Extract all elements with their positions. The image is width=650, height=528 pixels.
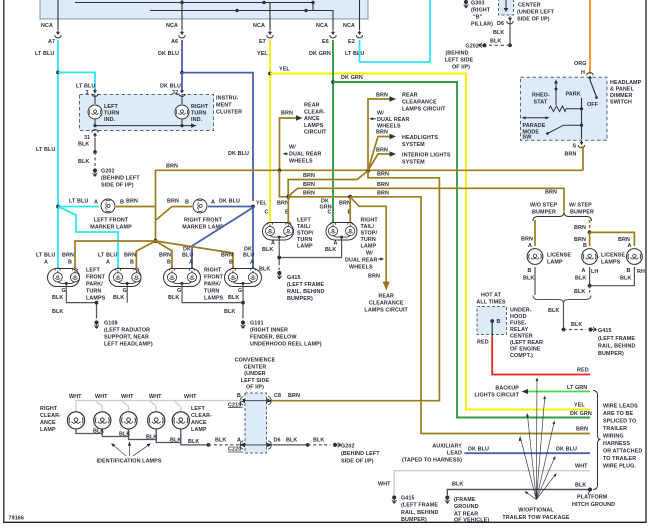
svg-text:A: A <box>334 241 338 247</box>
svg-text:BRN: BRN <box>376 93 388 99</box>
svg-text:W/: W/ <box>377 111 384 117</box>
lamp assembly right front park/turn 4 <box>221 247 262 295</box>
svg-text:A: A <box>211 200 215 206</box>
svg-text:WHEELS: WHEELS <box>289 158 313 164</box>
svg-text:B: B <box>627 268 631 274</box>
wire LT GRN backup lights stub <box>474 385 590 409</box>
wire BRN star to lamp2 B <box>136 241 155 268</box>
svg-text:WIRING: WIRING <box>603 434 624 440</box>
svg-text:(RIGHT INNER: (RIGHT INNER <box>250 328 288 334</box>
svg-text:BUMPER: BUMPER <box>532 210 556 216</box>
lamp identification 1 <box>94 412 111 429</box>
svg-text:YEL: YEL <box>256 201 267 207</box>
svg-text:DK BLU: DK BLU <box>468 447 489 453</box>
svg-text:LT BLU: LT BLU <box>35 51 54 57</box>
svg-text:UNDERHOOD REEL LAMP): UNDERHOOD REEL LAMP) <box>250 342 322 348</box>
node DK BLU marker junction <box>251 205 255 209</box>
svg-text:SW: SW <box>523 135 533 141</box>
lamp left front marker <box>56 199 138 231</box>
wire BRN to rear clearance lamps circuit (left stub) <box>280 103 328 171</box>
svg-text:LAMPS: LAMPS <box>204 296 224 302</box>
svg-text:DK GRN: DK GRN <box>309 51 331 57</box>
svg-text:DK BLU: DK BLU <box>160 84 181 90</box>
svg-text:BACKUP: BACKUP <box>495 386 519 392</box>
wire WHT trailer <box>378 464 590 496</box>
svg-text:DK BLU: DK BLU <box>158 51 179 57</box>
wire BRN junction to convenience center C8 (down right side) <box>272 171 439 401</box>
svg-text:A: A <box>106 260 110 266</box>
connector cluster pin 3 <box>92 89 98 96</box>
svg-text:HOOD: HOOD <box>510 314 527 320</box>
svg-text:SIDE OF I/P): SIDE OF I/P) <box>101 183 134 189</box>
svg-text:REAR: REAR <box>378 294 394 300</box>
svg-text:(LEFT REAR: (LEFT REAR <box>510 340 543 346</box>
svg-text:BRN: BRN <box>159 253 171 259</box>
wire DK BLU auxiliary lead <box>402 444 590 464</box>
svg-text:SYSTEM: SYSTEM <box>402 142 425 148</box>
parade mode lever <box>546 125 581 135</box>
svg-text:YEL: YEL <box>257 51 268 57</box>
svg-text:BRN: BRN <box>126 199 138 205</box>
svg-text:RIGHT: RIGHT <box>361 218 379 224</box>
svg-text:YEL: YEL <box>574 403 585 409</box>
svg-text:BUMPER): BUMPER) <box>401 517 427 523</box>
svg-text:CENTER: CENTER <box>510 334 533 340</box>
svg-text:BLK: BLK <box>262 247 273 253</box>
svg-text:B: B <box>120 200 124 206</box>
lamp license RH <box>620 249 645 282</box>
svg-text:G415: G415 <box>598 328 612 334</box>
svg-text:INTERIOR LIGHTS: INTERIOR LIGHTS <box>402 153 451 159</box>
svg-text:C: C <box>265 210 269 216</box>
svg-text:BLK: BLK <box>170 438 181 444</box>
svg-text:BLK: BLK <box>168 295 179 301</box>
svg-text:RIGHT: RIGHT <box>191 104 209 110</box>
connector E2 <box>343 19 364 57</box>
svg-text:E2: E2 <box>348 39 355 45</box>
svg-text:RED: RED <box>577 368 589 374</box>
ground G415 (tail lamps) <box>277 271 324 302</box>
svg-text:PARK/: PARK/ <box>204 282 221 288</box>
svg-text:REAR: REAR <box>304 103 320 109</box>
svg-text:A: A <box>528 243 532 249</box>
svg-text:BRN: BRN <box>221 253 233 259</box>
svg-text:BLK: BLK <box>78 159 89 165</box>
svg-text:PILLAR): PILLAR) <box>471 22 493 28</box>
svg-text:AUXILIARY: AUXILIARY <box>432 444 462 450</box>
svg-text:BRN: BRN <box>521 237 533 243</box>
svg-text:(TAPED TO HARNESS): (TAPED TO HARNESS) <box>402 458 462 464</box>
svg-text:RIGHT: RIGHT <box>204 268 222 274</box>
license lamp step-bumper split brace <box>530 203 594 222</box>
wire BLK dashed to G202 <box>489 39 510 46</box>
svg-text:WHT: WHT <box>149 394 162 400</box>
svg-text:LAMPS: LAMPS <box>86 296 106 302</box>
svg-text:LT BLU: LT BLU <box>76 84 95 90</box>
svg-text:BLK: BLK <box>452 482 463 488</box>
node left tail splice <box>286 195 290 199</box>
connector A7 <box>35 19 61 57</box>
svg-text:WHT: WHT <box>378 482 391 488</box>
lamp right front marker <box>167 199 253 231</box>
node DK BLU branch <box>180 71 184 75</box>
wire ORG <box>574 0 590 76</box>
svg-text:BLK: BLK <box>113 295 124 301</box>
svg-text:BLK: BLK <box>523 276 534 282</box>
wire BLK from cluster <box>78 138 95 153</box>
svg-text:CENTER: CENTER <box>244 364 267 370</box>
svg-text:PARK/: PARK/ <box>86 282 103 288</box>
svg-text:DK GRN: DK GRN <box>341 75 363 81</box>
junction dots in switch box <box>180 1 183 4</box>
svg-text:LAMPS CIRCUIT: LAMPS CIRCUIT <box>402 107 446 113</box>
ground G202 (behind left side of I/P) <box>445 43 487 71</box>
svg-text:G: G <box>238 288 242 294</box>
svg-text:NCA: NCA <box>343 23 355 29</box>
svg-text:BRN: BRN <box>303 191 315 197</box>
svg-text:79166: 79166 <box>9 516 25 522</box>
svg-text:LAMP: LAMP <box>297 244 313 250</box>
svg-text:W/ STEP: W/ STEP <box>569 203 592 209</box>
ground G202 (bottom) <box>333 443 380 465</box>
svg-text:COMPT.): COMPT.) <box>510 353 533 359</box>
svg-text:LT BLU: LT BLU <box>36 147 55 153</box>
svg-text:LEFT FRONT: LEFT FRONT <box>94 218 129 224</box>
svg-text:UNDER-: UNDER- <box>510 308 532 314</box>
connector C220 (A to D6) <box>228 437 281 452</box>
wire BLK license grounds <box>535 267 634 295</box>
connector cluster pin 32 <box>179 89 185 96</box>
wire LT BLU from A7 (main left run) <box>57 40 59 268</box>
svg-text:E6: E6 <box>322 39 329 45</box>
svg-text:RAIL, BEHIND: RAIL, BEHIND <box>598 344 635 350</box>
svg-text:TAIL/: TAIL/ <box>297 224 311 230</box>
lamp assembly left tail/stop/turn <box>256 201 314 250</box>
svg-text:TURN: TURN <box>104 111 119 117</box>
svg-text:D6: D6 <box>274 437 281 443</box>
trailer option arrow fan <box>520 380 555 500</box>
svg-text:A6: A6 <box>171 39 178 45</box>
svg-text:B: B <box>497 319 501 325</box>
wire BRN to rear clearance (w/ dual rear wheels) <box>350 197 390 291</box>
svg-text:OF I/P): OF I/P) <box>452 65 470 71</box>
connector E6 <box>309 19 336 57</box>
svg-text:BRN: BRN <box>376 148 388 154</box>
wire BRN bus drop to left tail splice <box>279 170 288 197</box>
wire YEL into left tail C <box>269 213 271 222</box>
svg-text:ANCE: ANCE <box>191 420 207 426</box>
svg-text:NCA: NCA <box>166 23 178 29</box>
svg-text:CLEARANCE: CLEARANCE <box>369 301 404 307</box>
svg-text:B: B <box>229 260 233 266</box>
svg-text:DIMMER: DIMMER <box>610 93 632 99</box>
svg-text:LIGHTS CIRCUIT: LIGHTS CIRCUIT <box>474 393 519 399</box>
lamp assembly left front park/turn 2 <box>98 253 141 295</box>
svg-text:E7: E7 <box>259 39 266 45</box>
node right tail splice <box>348 195 352 199</box>
svg-text:BUMPER: BUMPER <box>570 210 594 216</box>
svg-text:B: B <box>68 260 72 266</box>
svg-text:D6: D6 <box>497 21 504 27</box>
svg-text:BLK: BLK <box>325 247 336 253</box>
wire DK GRN across and down right side <box>333 75 590 418</box>
rheostat wiper arrow <box>554 80 558 106</box>
label platform hitch ground <box>572 491 615 509</box>
svg-text:FUSE-: FUSE- <box>510 321 527 327</box>
lamp right turn indicator <box>175 95 209 123</box>
svg-text:BUMPER): BUMPER) <box>598 351 624 357</box>
svg-text:B: B <box>237 393 241 399</box>
lamp assembly right front park/turn 3 <box>159 247 201 295</box>
svg-text:A: A <box>250 260 254 266</box>
svg-text:G108: G108 <box>104 321 118 327</box>
svg-text:SWITCH: SWITCH <box>610 100 632 106</box>
svg-text:NCA: NCA <box>253 23 265 29</box>
svg-text:SUPPORT, NEAR: SUPPORT, NEAR <box>104 335 149 341</box>
svg-text:BLK: BLK <box>224 309 235 315</box>
wire D6 BLK <box>493 21 510 45</box>
svg-text:IDENTIFICATION LAMPS: IDENTIFICATION LAMPS <box>96 459 161 465</box>
svg-text:LAMPS CIRCUIT: LAMPS CIRCUIT <box>364 308 408 314</box>
node DK GRN branch <box>331 80 335 84</box>
lamp left clearance <box>172 412 189 429</box>
lamp license (w/o step bumper) <box>523 249 571 282</box>
svg-text:NCA: NCA <box>316 23 328 29</box>
svg-text:(FRAME: (FRAME <box>454 497 476 503</box>
svg-text:BLK: BLK <box>52 295 63 301</box>
svg-text:TURN: TURN <box>204 289 219 295</box>
svg-text:BRN: BRN <box>62 253 74 259</box>
svg-text:FRONT: FRONT <box>86 275 106 281</box>
svg-text:LEFT SIDE: LEFT SIDE <box>241 378 270 384</box>
turn signal switch box (top, cut off) <box>40 0 368 19</box>
svg-text:CLEAR-: CLEAR- <box>191 413 212 419</box>
wire BRN w/o step bumper branch <box>521 220 535 249</box>
svg-text:LT BLU: LT BLU <box>345 51 364 57</box>
lamp right clearance <box>67 412 84 429</box>
wire DK GRN from E6 (left vertical) <box>332 40 334 213</box>
svg-text:TURN: TURN <box>297 237 312 243</box>
wire YEL across and down right side <box>270 67 590 410</box>
wire inside switch box <box>58 0 360 19</box>
svg-text:SIDE OF I/P): SIDE OF I/P) <box>517 17 550 23</box>
svg-text:BRN: BRN <box>303 173 315 179</box>
svg-text:HEADLAMP: HEADLAMP <box>610 80 642 86</box>
svg-text:BLK: BLK <box>188 439 199 445</box>
svg-text:SIDE OF I/P): SIDE OF I/P) <box>341 459 374 465</box>
svg-text:BRN: BRN <box>377 191 389 197</box>
svg-text:PARK: PARK <box>566 92 581 98</box>
connector E7 <box>253 19 273 57</box>
lamp assembly right tail/stop/turn <box>320 199 379 250</box>
svg-text:DK BLU: DK BLU <box>219 199 240 205</box>
svg-text:BLK: BLK <box>575 276 586 282</box>
svg-text:LAMP: LAMP <box>547 260 563 266</box>
svg-text:BRN: BRN <box>166 164 178 170</box>
svg-text:G415: G415 <box>287 275 301 281</box>
svg-text:HEADLIGHTS: HEADLIGHTS <box>402 135 438 141</box>
wire BRN into right tail B <box>349 197 351 222</box>
switch lever H-OFF <box>587 80 599 108</box>
svg-text:OF ENGINE: OF ENGINE <box>510 347 541 353</box>
svg-text:BLK: BLK <box>52 309 63 315</box>
svg-text:LAMP: LAMP <box>40 427 56 433</box>
svg-text:B: B <box>583 243 587 249</box>
svg-text:PLATFORM: PLATFORM <box>577 495 608 501</box>
svg-text:RED: RED <box>477 340 489 346</box>
svg-text:BRN: BRN <box>368 274 380 280</box>
svg-text:GROUND: GROUND <box>454 504 479 510</box>
svg-text:BUMPER): BUMPER) <box>287 296 313 302</box>
svg-text:NCA: NCA <box>41 23 53 29</box>
svg-text:DUAL REAR: DUAL REAR <box>377 117 410 123</box>
wire BRN row to left tail junction <box>288 171 389 197</box>
svg-text:LAMP: LAMP <box>191 427 207 433</box>
wire BLK down from brace <box>548 303 564 330</box>
svg-text:G: G <box>123 288 127 294</box>
svg-text:BLK: BLK <box>228 295 239 301</box>
svg-text:IND.: IND. <box>191 117 203 123</box>
svg-text:W/OPTIONAL: W/OPTIONAL <box>518 508 554 514</box>
svg-text:REAR: REAR <box>402 93 418 99</box>
wire BLK dashed to G202 <box>78 152 95 168</box>
svg-text:B: B <box>130 260 134 266</box>
wire BRN row to license lamps <box>288 182 564 212</box>
svg-text:G303: G303 <box>471 1 485 7</box>
wire BRN to interior lights system <box>368 148 451 171</box>
node BLK splice <box>562 328 566 332</box>
svg-text:B: B <box>528 268 532 274</box>
wire BLK grounds left pair <box>52 287 127 321</box>
svg-text:BRN: BRN <box>377 182 389 188</box>
svg-text:LT BLU: LT BLU <box>69 199 88 205</box>
node cluster ground splice <box>93 150 97 154</box>
wire BLK tail lamp grounds <box>259 241 342 273</box>
node YEL branch <box>268 72 272 76</box>
svg-text:BLK: BLK <box>620 276 631 282</box>
svg-text:RIGHT FRONT: RIGHT FRONT <box>184 218 223 224</box>
cluster internal bus with arrow <box>93 119 196 128</box>
ground G415 (license) <box>588 327 635 357</box>
svg-text:WHEELS: WHEELS <box>349 265 373 271</box>
connector S on switch <box>578 141 584 148</box>
wire LT BLU from E2 <box>360 0 431 62</box>
svg-text:CLUSTER: CLUSTER <box>216 110 242 116</box>
svg-text:TURN: TURN <box>191 111 206 117</box>
svg-text:WHT: WHT <box>69 394 82 400</box>
svg-text:WHT: WHT <box>121 394 134 400</box>
svg-text:A: A <box>189 260 193 266</box>
svg-text:B: B <box>167 260 171 266</box>
node bus/left-tail junction <box>278 169 282 173</box>
svg-text:DK BLU: DK BLU <box>556 447 577 453</box>
node BRN main junction <box>366 169 370 173</box>
svg-text:PARADE: PARADE <box>523 123 546 129</box>
svg-text:LT BLU: LT BLU <box>98 253 117 259</box>
wire BRN w/ step bumper branch (dashed) <box>574 220 590 231</box>
svg-text:TO TRAILER: TO TRAILER <box>603 456 636 462</box>
svg-text:(BEHIND LEFT: (BEHIND LEFT <box>101 176 140 182</box>
lamp identification 3 <box>148 412 165 429</box>
connector C219 (B to C8) <box>228 393 281 408</box>
license ground join brace <box>533 296 591 304</box>
svg-text:SYSTEM: SYSTEM <box>402 160 425 166</box>
svg-text:A: A <box>44 260 48 266</box>
rheostat resistor <box>549 106 582 112</box>
wire BRN marker B left to star <box>156 207 192 221</box>
wire DK BLU to marker feed <box>182 73 253 201</box>
svg-text:BLK: BLK <box>313 437 324 443</box>
svg-text:MENT: MENT <box>216 103 232 109</box>
svg-text:HOT AT: HOT AT <box>481 293 502 299</box>
convenience center (top) box <box>499 0 555 23</box>
lamp identification 2 <box>120 412 137 429</box>
svg-text:OFF: OFF <box>587 102 599 108</box>
instrument cluster box <box>80 95 214 131</box>
svg-text:BRN: BRN <box>277 201 289 207</box>
svg-text:LEFT: LEFT <box>86 268 100 274</box>
wire LT BLU branch to lamp2 <box>58 207 118 269</box>
svg-text:H: H <box>581 70 585 76</box>
note w/ dual rear wheels (lower) <box>345 251 384 280</box>
svg-text:CONVENIENCE: CONVENIENCE <box>235 358 276 364</box>
note w/ dual rear wheels (upper) <box>369 111 409 130</box>
svg-text:IND.: IND. <box>104 117 116 123</box>
svg-text:ORG: ORG <box>574 61 587 67</box>
identification lamps callout <box>96 442 161 465</box>
svg-text:HARNESS: HARNESS <box>603 441 630 447</box>
svg-text:LH: LH <box>591 269 598 275</box>
svg-text:"B": "B" <box>473 15 483 21</box>
svg-text:RAIL, BEHIND: RAIL, BEHIND <box>401 510 438 516</box>
svg-text:(LEFT RADIATOR: (LEFT RADIATOR <box>104 328 150 334</box>
svg-text:G: G <box>177 288 181 294</box>
svg-text:(LEFT FRAME: (LEFT FRAME <box>401 503 438 509</box>
wire WHT bus <box>76 401 243 412</box>
svg-text:BLK: BLK <box>574 289 585 295</box>
svg-text:G: G <box>62 288 66 294</box>
svg-text:LAMPS: LAMPS <box>304 123 324 129</box>
svg-text:DUAL REAR: DUAL REAR <box>345 258 378 264</box>
svg-text:(BEHIND LEFT: (BEHIND LEFT <box>341 451 380 457</box>
svg-text:BRN: BRN <box>377 172 389 178</box>
node license splice <box>588 231 592 235</box>
ground G101 <box>241 320 322 347</box>
node star junction <box>153 239 157 243</box>
svg-text:BRN: BRN <box>574 225 586 231</box>
parade mode sw double arrow <box>522 116 550 119</box>
svg-text:TURN: TURN <box>361 237 376 243</box>
svg-text:TRAILER: TRAILER <box>603 426 627 432</box>
svg-text:BLU: BLU <box>243 253 254 259</box>
wire BRN row to trailer lead <box>288 191 350 197</box>
svg-text:A: A <box>628 243 632 249</box>
svg-text:RELAY: RELAY <box>510 327 529 333</box>
svg-text:BLK: BLK <box>548 308 559 314</box>
wire BRN star to lamp3 B <box>156 241 173 268</box>
svg-text:CLEAR-: CLEAR- <box>40 413 61 419</box>
svg-text:INSTRU-: INSTRU- <box>216 96 239 102</box>
svg-text:DK GRN: DK GRN <box>570 411 592 417</box>
svg-text:OR ATTACHED: OR ATTACHED <box>603 449 642 455</box>
svg-text:W/O STEP: W/O STEP <box>530 203 557 209</box>
svg-text:BRN: BRN <box>376 130 388 136</box>
wire BRN from S to bus <box>565 147 584 170</box>
svg-text:CLEAR-: CLEAR- <box>304 109 325 115</box>
svg-text:OF VEHICLE): OF VEHICLE) <box>454 518 489 524</box>
wire BLK dashed to G415 <box>564 322 587 330</box>
svg-text:BLK: BLK <box>146 435 157 441</box>
